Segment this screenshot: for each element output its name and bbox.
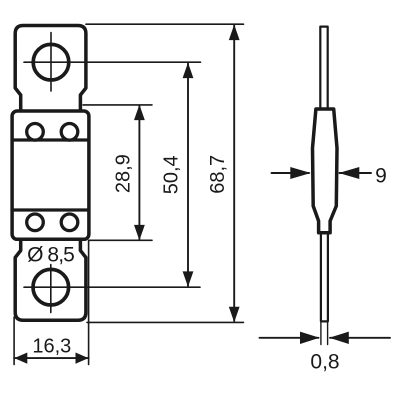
svg-text:16,3: 16,3 [32,335,71,357]
arrowhead 50,4 down [183,271,194,287]
svg-text:Ø 8,5: Ø 8,5 [27,243,74,266]
extension line 68,7 bottom [87,321,244,323]
side view: blade extension line left [320,323,322,345]
arrowhead 0,8 left [300,332,320,344]
front view: body outline [12,111,89,239]
front view: body interior line lower [12,208,89,211]
extension line 16,3 left [13,317,15,365]
dimension line 50,4 [187,64,189,287]
svg-text:50,4: 50,4 [160,155,182,194]
arrowhead 28,9 down [134,225,145,241]
arrowhead 16,3 right [76,353,89,364]
arrowhead 68,7 up [229,25,240,40]
svg-text:68,7: 68,7 [207,155,229,194]
front view: bottom mounting hole [33,269,69,305]
dimension line 68,7 [233,26,235,322]
centerline bottom hole vertical [50,265,52,313]
svg-text:0,8: 0,8 [310,351,339,374]
centerline top hole vertical [50,33,52,92]
front view: bottom mounting tab outline [15,240,86,320]
front view: small rivet hole top-right [61,124,78,141]
extension line 28,9 top [83,104,152,106]
front view: small rivet hole top-left [27,124,44,141]
front view: top mounting hole [33,44,69,80]
centerline bottom hole horizontal + 50,4 bottom extension [24,286,200,288]
arrowhead 9 left [290,167,311,179]
arrowhead 50,4 up [183,63,194,79]
front view: small rivet hole bottom-left [27,214,44,231]
side view: blade extension line right [327,323,329,345]
extension line 68,7 top [86,23,244,25]
dimension line 16,3 [14,357,88,359]
arrowhead 9 right [339,167,360,179]
arrowhead 16,3 left [14,353,27,364]
arrowhead 68,7 down [229,307,240,323]
extension line 16,3 right [88,241,90,365]
arrowhead 0,8 right [329,332,349,344]
dimension line 28,9 [138,106,140,239]
side view: body outline [313,109,338,233]
front view: small rivet hole bottom-right [61,214,78,231]
front view: body interior line upper [12,138,89,141]
dimension line 0,8 left segment [260,337,319,339]
arrowhead 28,9 up [134,105,145,121]
svg-text:28,9: 28,9 [112,154,134,193]
svg-text:9: 9 [375,164,387,187]
extension line 28,9 bottom [89,239,152,241]
front view: top mounting tab outline [15,26,86,111]
centerline top hole horizontal + 50,4 top extension [24,61,201,63]
dimension line 9 right segment [340,172,372,174]
dimension line 0,8 right segment [330,337,390,339]
side view: top blade [320,27,327,108]
dimension line 9 left segment [272,172,310,174]
side view: bottom blade [321,235,328,322]
